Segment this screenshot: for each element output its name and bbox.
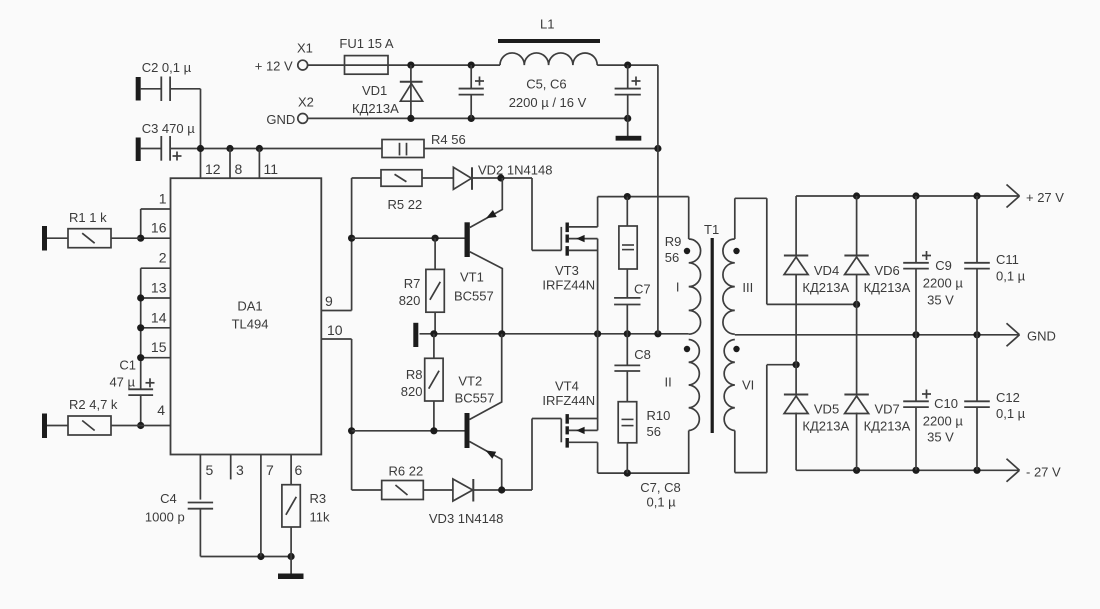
svg-text:VT3: VT3 (555, 263, 579, 278)
svg-text:C11: C11 (996, 252, 1019, 267)
svg-text:VD2 1N4148: VD2 1N4148 (478, 163, 552, 178)
svg-text:15: 15 (151, 339, 167, 355)
svg-text:16: 16 (151, 220, 167, 236)
svg-text:11k: 11k (310, 510, 330, 525)
svg-text:VT4: VT4 (555, 379, 579, 394)
svg-text:2: 2 (159, 250, 167, 266)
svg-text:820: 820 (401, 384, 423, 399)
svg-text:- 27 V: - 27 V (1026, 465, 1061, 480)
svg-text:VD5: VD5 (814, 402, 839, 417)
svg-text:BC557: BC557 (455, 391, 495, 406)
svg-text:C4: C4 (160, 491, 177, 506)
svg-text:R9: R9 (665, 234, 682, 249)
svg-text:VD4: VD4 (814, 263, 839, 278)
svg-text:R8: R8 (406, 367, 423, 382)
svg-text:8: 8 (235, 161, 243, 177)
svg-text:0,1 µ: 0,1 µ (647, 495, 677, 510)
svg-text:C9: C9 (935, 258, 952, 273)
svg-text:R4 56: R4 56 (431, 132, 466, 147)
svg-text:6: 6 (295, 462, 303, 478)
svg-text:IRFZ44N: IRFZ44N (542, 278, 595, 293)
svg-text:GND: GND (266, 112, 295, 127)
svg-text:5: 5 (206, 462, 214, 478)
svg-text:R10: R10 (647, 408, 671, 423)
svg-text:C2 0,1 µ: C2 0,1 µ (142, 60, 192, 75)
svg-text:9: 9 (325, 293, 333, 309)
svg-text:L1: L1 (540, 17, 554, 32)
svg-text:R6 22: R6 22 (389, 464, 424, 479)
svg-text:FU1 15 A: FU1 15 A (339, 36, 394, 51)
svg-text:2200 µ / 16 V: 2200 µ / 16 V (509, 95, 587, 110)
svg-text:R2 4,7 k: R2 4,7 k (69, 397, 118, 412)
svg-text:VT2: VT2 (458, 374, 482, 389)
svg-text:VD1: VD1 (362, 83, 387, 98)
svg-text:VT1: VT1 (460, 270, 484, 285)
svg-text:IRFZ44N: IRFZ44N (542, 393, 595, 408)
svg-text:14: 14 (151, 309, 167, 325)
svg-text:11: 11 (264, 161, 279, 177)
svg-text:T1: T1 (704, 222, 719, 237)
svg-text:II: II (665, 375, 672, 390)
svg-text:2200 µ: 2200 µ (923, 414, 964, 429)
svg-text:56: 56 (647, 424, 661, 439)
svg-text:VI: VI (742, 378, 754, 393)
svg-text:TL494: TL494 (232, 317, 269, 332)
svg-text:R3: R3 (310, 491, 327, 506)
svg-text:R1 1 k: R1 1 k (69, 210, 107, 225)
svg-text:C5, C6: C5, C6 (526, 77, 566, 92)
svg-text:C3 470 µ: C3 470 µ (142, 121, 196, 136)
svg-text:X1: X1 (297, 41, 313, 56)
svg-text:3: 3 (236, 462, 244, 478)
svg-text:+ 12 V: + 12 V (255, 59, 293, 74)
svg-text:R5 22: R5 22 (388, 197, 423, 212)
svg-text:0,1 µ: 0,1 µ (996, 269, 1026, 284)
svg-text:35 V: 35 V (927, 293, 954, 308)
svg-text:КД213А: КД213А (352, 101, 399, 116)
svg-text:C1: C1 (119, 358, 136, 373)
svg-text:C10: C10 (934, 396, 958, 411)
svg-text:GND: GND (1027, 329, 1056, 344)
svg-text:КД213А: КД213А (864, 280, 911, 295)
svg-text:820: 820 (399, 293, 421, 308)
svg-text:КД213А: КД213А (864, 419, 911, 434)
svg-text:56: 56 (665, 250, 679, 265)
svg-text:C7, C8: C7, C8 (640, 480, 680, 495)
svg-text:7: 7 (266, 462, 274, 478)
svg-text:BC557: BC557 (454, 289, 494, 304)
svg-text:2200 µ: 2200 µ (923, 276, 964, 291)
svg-text:X2: X2 (298, 95, 314, 110)
svg-text:C12: C12 (996, 390, 1020, 405)
svg-text:12: 12 (205, 161, 221, 177)
svg-text:КД213А: КД213А (802, 280, 849, 295)
svg-text:VD3 1N4148: VD3 1N4148 (429, 511, 503, 526)
svg-text:47 µ: 47 µ (109, 375, 135, 390)
svg-text:+ 27 V: + 27 V (1026, 190, 1064, 205)
svg-text:4: 4 (157, 402, 165, 418)
svg-text:1000 p: 1000 p (145, 510, 185, 525)
svg-text:C8: C8 (634, 347, 651, 362)
svg-text:13: 13 (151, 280, 167, 296)
svg-text:III: III (742, 280, 753, 295)
svg-text:VD7: VD7 (875, 402, 900, 417)
svg-text:0,1 µ: 0,1 µ (996, 406, 1026, 421)
svg-text:1: 1 (159, 191, 167, 207)
svg-text:C7: C7 (634, 282, 651, 297)
svg-text:VD6: VD6 (875, 263, 900, 278)
svg-text:I: I (676, 280, 680, 295)
svg-text:КД213А: КД213А (802, 419, 849, 434)
svg-text:10: 10 (327, 322, 343, 338)
svg-text:35 V: 35 V (927, 430, 954, 445)
svg-text:R7: R7 (404, 276, 421, 291)
svg-text:DA1: DA1 (237, 299, 262, 314)
